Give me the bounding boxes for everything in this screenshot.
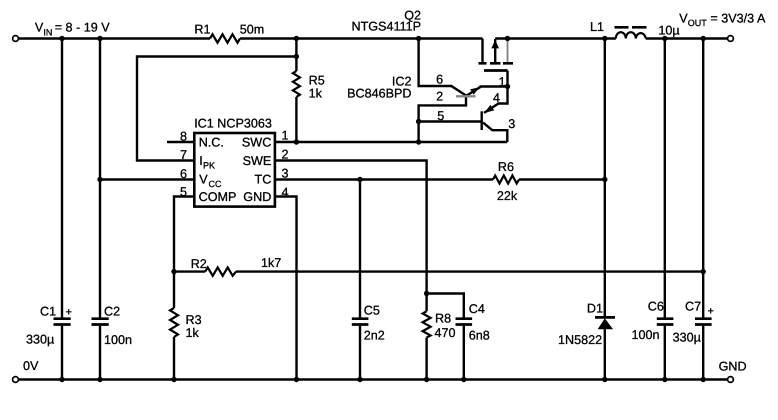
svg-text:COMP: COMP	[199, 190, 237, 204]
svg-text:CC: CC	[209, 179, 222, 189]
resistor R1	[210, 34, 240, 42]
wire C4 branch	[427, 294, 464, 380]
svg-text:D1: D1	[587, 302, 603, 316]
wire ground rail	[19, 378, 728, 380]
svg-text:22k: 22k	[497, 189, 518, 203]
svg-text:IN: IN	[43, 27, 52, 37]
svg-text:R8: R8	[435, 312, 451, 326]
svg-text:6: 6	[436, 73, 443, 87]
junction dot gate node top	[505, 36, 510, 41]
svg-text:R1: R1	[194, 22, 210, 36]
svg-text:1k: 1k	[309, 87, 323, 101]
wire C7 branch	[702, 39, 704, 380]
terminal GND	[728, 377, 734, 383]
transistor IC2 t2 emitter arrow head	[484, 105, 494, 113]
wire TC line pin 3	[275, 178, 605, 180]
svg-text:1: 1	[498, 75, 505, 89]
svg-text:OUT: OUT	[688, 18, 708, 28]
resistor R8	[423, 311, 431, 337]
wire IC1 pin 6 Vcc	[100, 178, 194, 180]
junction dot gnd R3	[171, 377, 176, 382]
wire IC1 pin 5 COMP drop	[174, 197, 194, 272]
resistor R3	[170, 308, 178, 337]
wire C1 branch	[61, 39, 63, 380]
svg-text:C2: C2	[104, 305, 120, 319]
svg-text:NTGS4111P: NTGS4111P	[351, 20, 421, 34]
svg-text:8: 8	[180, 130, 187, 144]
capacitor C7 plates	[695, 319, 712, 325]
svg-text:3: 3	[508, 117, 515, 131]
wire GND pin 4 drop	[275, 197, 296, 380]
wire IC2 pin 3 collector t2	[483, 123, 507, 143]
junction dot gnd C5	[357, 377, 362, 382]
junction dot pin5 tee	[416, 119, 421, 124]
svg-text:IC1 NCP3063: IC1 NCP3063	[194, 117, 272, 131]
wire switch node / D1 branch	[604, 39, 606, 380]
junction dot gnd C4	[461, 377, 466, 382]
wire C5 branch	[359, 180, 361, 380]
svg-text:4: 4	[493, 91, 500, 105]
svg-text:TC: TC	[255, 172, 272, 186]
svg-text:0V: 0V	[23, 359, 39, 373]
transistor Q2 drain link (grey)	[507, 39, 509, 62]
junction dot Vin R5	[294, 36, 299, 41]
wire IC2 pin 5 base t2	[419, 120, 481, 122]
svg-text:5: 5	[180, 185, 187, 199]
junction dot gnd D1	[602, 377, 607, 382]
wire IC2 pin 6 from Vin	[419, 39, 466, 96]
wire IC2 pin 4 emitter t2	[484, 87, 508, 113]
svg-text:1: 1	[281, 129, 288, 143]
svg-text:V: V	[199, 172, 208, 186]
wire C6 branch	[664, 39, 666, 380]
svg-text:= 3V3/3 A: = 3V3/3 A	[710, 11, 766, 25]
junction dot SWC IC2	[416, 139, 421, 144]
svg-text:1N5822: 1N5822	[558, 333, 602, 347]
svg-text:5: 5	[437, 109, 444, 123]
junction dot gnd C1	[59, 377, 64, 382]
wire IC2 t1 emitter to gate node	[466, 87, 508, 97]
svg-text:100n: 100n	[104, 333, 132, 347]
svg-text:470: 470	[435, 326, 456, 340]
capacitor C2 plates	[92, 319, 109, 325]
junction dot Vin C1	[59, 36, 64, 41]
svg-text:7: 7	[180, 148, 187, 162]
capacitor C6 plates	[657, 319, 674, 325]
inductor L1	[616, 32, 646, 38]
wire IC1 pin 8 stub	[167, 141, 194, 143]
capacitor C5 plates	[352, 319, 369, 325]
svg-text:N.C.: N.C.	[199, 135, 224, 149]
resistor R2	[205, 267, 236, 275]
svg-text:2: 2	[436, 90, 443, 104]
transistor IC2 t1 base bar (grey)	[456, 95, 476, 97]
resistor R5	[293, 71, 300, 97]
transistor Q2 body arrow head	[491, 40, 499, 49]
svg-text:6: 6	[180, 167, 187, 181]
wire feedback R2 line	[174, 270, 703, 272]
wire Q2 body arrow lead	[494, 39, 496, 64]
svg-text:C5: C5	[364, 304, 380, 318]
svg-text:C6: C6	[648, 300, 664, 314]
wire SWC line pin 1	[275, 141, 507, 143]
svg-text:330µ: 330µ	[673, 331, 701, 345]
terminal 0V	[13, 377, 19, 383]
junction dot gate node	[505, 84, 510, 89]
svg-text:+: +	[66, 306, 72, 318]
junction dot TC switch	[602, 177, 607, 182]
svg-text:L1: L1	[590, 20, 604, 34]
svg-text:1k7: 1k7	[261, 256, 281, 270]
wire Ipk loop	[137, 57, 296, 161]
svg-text:3: 3	[281, 167, 288, 181]
svg-text:100n: 100n	[632, 328, 660, 342]
capacitor C1 plates	[54, 319, 71, 325]
wire IC2 pin 2 base return	[419, 96, 466, 142]
junction dot Vcc C2	[97, 177, 102, 182]
junction dot out C6	[662, 36, 667, 41]
junction dot feedback C7	[701, 269, 706, 274]
svg-text:4: 4	[281, 186, 288, 200]
transistor IC2 t1 emitter arrow head	[470, 87, 479, 95]
junction dot TC C5	[357, 177, 362, 182]
svg-text:C1: C1	[40, 305, 56, 319]
svg-text:10µ: 10µ	[658, 24, 679, 38]
junction dot out C7	[701, 36, 706, 41]
inductor L1 core bars	[615, 26, 647, 29]
svg-text:PK: PK	[203, 161, 215, 171]
svg-text:= 8 - 19 V: = 8 - 19 V	[55, 21, 111, 35]
svg-text:+: +	[708, 305, 714, 317]
svg-text:R5: R5	[309, 74, 325, 88]
wire Q2 source	[481, 39, 483, 62]
svg-text:SWE: SWE	[243, 154, 272, 168]
junction dot gnd C7	[701, 377, 706, 382]
svg-text:2: 2	[281, 147, 288, 161]
wire input rail	[19, 37, 483, 39]
junction dot gnd C6	[662, 377, 667, 382]
svg-text:50m: 50m	[240, 22, 265, 36]
junction dot SWC R5	[294, 139, 299, 144]
terminal Vin	[13, 36, 19, 42]
transistor IC2 t2 base bar	[481, 111, 483, 130]
resistor R6	[493, 176, 519, 184]
wire R3 branch	[173, 272, 175, 380]
svg-text:2n2: 2n2	[364, 329, 385, 343]
wire switch rail (Q2 drain to L1 to output)	[495, 37, 727, 39]
wire C2 branch	[99, 39, 101, 380]
transistor Q2 gate plate	[484, 69, 508, 72]
wire R8 branch	[425, 294, 427, 380]
svg-text:R2: R2	[191, 257, 207, 271]
svg-text:GND: GND	[719, 360, 747, 374]
terminal Vout	[728, 36, 734, 42]
svg-text:C7: C7	[685, 300, 701, 314]
wire R5 top link	[295, 39, 297, 143]
junction dot switch node	[602, 36, 607, 41]
junction dot gnd R8	[424, 377, 429, 382]
junction dot Ipk loop R5	[294, 54, 299, 59]
junction dot SWE R8 C4	[424, 291, 429, 296]
junction dot gnd C2	[97, 377, 102, 382]
junction dot gnd IC1	[294, 377, 299, 382]
diode D1 cathode bar	[595, 316, 615, 319]
diode D1 triangle	[598, 318, 614, 329]
transistor Q2 channel bars	[479, 62, 514, 65]
wire Q2 gate lead	[506, 71, 508, 87]
svg-text:BC846BPD: BC846BPD	[347, 87, 411, 101]
IC1 box	[194, 133, 275, 207]
junction dot Vin C2	[97, 36, 102, 41]
svg-text:1k: 1k	[186, 326, 200, 340]
junction dot Vin IC2	[416, 36, 421, 41]
svg-text:GND: GND	[243, 190, 271, 204]
capacitor C4 plates	[456, 319, 473, 325]
wire SWE pin 2 drop	[275, 161, 427, 294]
svg-text:R6: R6	[498, 160, 514, 174]
svg-text:330µ: 330µ	[26, 333, 54, 347]
svg-text:SWC: SWC	[242, 135, 271, 149]
svg-text:6n8: 6n8	[469, 329, 490, 343]
svg-text:C4: C4	[469, 302, 485, 316]
junction dot COMP R2 R3	[171, 269, 176, 274]
svg-text:R3: R3	[186, 313, 202, 327]
